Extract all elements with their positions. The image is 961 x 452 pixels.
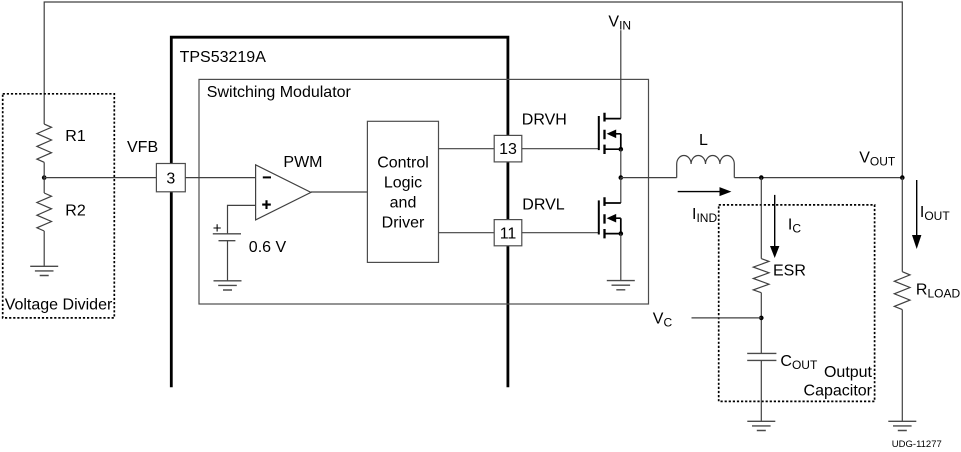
wire battery to ground — [227, 241, 229, 281]
svg-text:ESR: ESR — [773, 263, 806, 280]
svg-text:R2: R2 — [65, 203, 86, 220]
wire R2 to ground — [43, 231, 45, 266]
transistor Q1 (high-side MOSFET) — [599, 113, 623, 154]
svg-text:DRVL: DRVL — [522, 197, 564, 214]
ground (0.6 V reference) — [214, 281, 242, 290]
wire Q1 source to switch node — [620, 149, 622, 177]
resistor R2 — [37, 193, 52, 231]
wire switch node to inductor — [621, 177, 677, 179]
svg-text:+: + — [213, 220, 222, 237]
svg-text:3: 3 — [166, 170, 175, 187]
svg-text:Voltage Divider: Voltage Divider — [5, 297, 113, 314]
svg-text:L: L — [699, 132, 708, 149]
node VC — [759, 316, 764, 321]
resistor R1 — [37, 124, 52, 162]
svg-text:Driver: Driver — [382, 214, 425, 231]
svg-text:R1: R1 — [65, 128, 86, 145]
wire VFB (node to pin 3) — [44, 177, 156, 179]
wire control to pin 13 — [439, 148, 495, 150]
wire switch node to Q2 drain — [620, 178, 622, 203]
ground (output capacitor) — [747, 421, 775, 430]
node A (divider junction) — [42, 175, 47, 180]
wire pin 13 to high gate — [522, 148, 599, 150]
wire pin3 to comparator — [185, 177, 255, 179]
wire comparator output — [311, 191, 368, 193]
battery 0.6 V — [213, 233, 241, 235]
ground (load) — [888, 421, 916, 430]
pin 11 — [494, 220, 522, 246]
wire plus input to battery — [228, 205, 256, 233]
svg-text:and: and — [390, 194, 417, 211]
wire control to pin 11 — [439, 232, 495, 234]
svg-text:PWM: PWM — [283, 154, 322, 171]
svg-text:Switching Modulator: Switching Modulator — [207, 84, 352, 101]
node output branch — [759, 175, 764, 180]
ground (voltage divider) — [30, 266, 58, 275]
voltage divider dashed box — [3, 94, 115, 318]
svg-text:DRVH: DRVH — [522, 112, 567, 129]
output capacitor dashed box — [719, 205, 875, 402]
TPS53219A thick boundary — [171, 37, 508, 387]
transistor Q2 (low-side MOSFET) — [599, 197, 623, 238]
svg-text:TPS53219A: TPS53219A — [180, 49, 267, 66]
svg-text:13: 13 — [499, 141, 517, 158]
svg-text:Control: Control — [377, 154, 429, 171]
resistor RLOAD — [894, 272, 910, 310]
svg-text:Capacitor: Capacitor — [804, 382, 873, 399]
capacitor COUT — [747, 353, 776, 360]
pin 3 — [156, 164, 185, 192]
wire pin 11 to low gate — [522, 232, 599, 234]
svg-text:Logic: Logic — [384, 174, 422, 191]
op-amp PWM comparator — [256, 165, 311, 220]
wire VC — [692, 317, 762, 319]
pin 13 — [494, 135, 522, 162]
arrow IC — [774, 195, 776, 246]
wire inductor to VOUT — [734, 177, 902, 179]
Switching Modulator box — [199, 79, 649, 304]
wire feedback top rail (VOUT to R1) — [44, 2, 902, 178]
wire capacitor to ground — [760, 360, 762, 421]
svg-text:11: 11 — [500, 225, 517, 242]
svg-text:VFB: VFB — [127, 139, 158, 156]
inductor L — [677, 155, 735, 177]
node switch — [619, 175, 624, 180]
wire ESR to capacitor — [760, 293, 762, 354]
svg-text:Output: Output — [824, 364, 873, 381]
wire RLOAD to ground — [901, 310, 903, 422]
node VOUT — [900, 175, 905, 180]
control logic box — [367, 121, 438, 262]
wire branch to ESR — [760, 178, 762, 259]
wire VIN lead — [620, 30, 622, 118]
resistor ESR — [753, 259, 769, 293]
svg-text:0.6 V: 0.6 V — [249, 239, 287, 256]
arrow IOUT — [916, 180, 918, 235]
ground (power stage) — [607, 281, 635, 290]
wire node to R2 — [43, 162, 45, 193]
wire Q2 source to ground — [620, 234, 622, 281]
wire VOUT to RLOAD — [901, 178, 903, 272]
svg-text:UDG-11277: UDG-11277 — [892, 439, 942, 450]
arrow IIND — [678, 191, 720, 193]
